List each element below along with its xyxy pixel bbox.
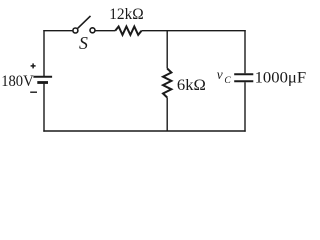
svg-text:12kΩ: 12kΩ (109, 6, 144, 23)
svg-text:180V: 180V (1, 73, 34, 90)
resistor 12kOhm (115, 27, 141, 35)
svg-text:C: C (224, 75, 231, 86)
capacitor 1000uF (234, 74, 253, 81)
svg-text:v: v (217, 67, 223, 82)
battery minus sign (30, 91, 37, 93)
switch left terminal circle (73, 28, 78, 33)
resistor 6kOhm (163, 69, 171, 98)
switch blade (78, 16, 91, 28)
battery 180V (33, 77, 52, 83)
svg-text:6kΩ: 6kΩ (177, 77, 206, 94)
wire bottom (43, 130, 245, 132)
wire right vertical upper (244, 30, 246, 73)
capacitor top plate (234, 73, 253, 75)
wire left vertical lower (43, 84, 45, 132)
wire middle branch lower (166, 98, 168, 132)
wire switch to 12k resistor (95, 30, 115, 32)
wire right vertical lower (244, 82, 246, 132)
battery short plate (37, 81, 48, 84)
wire left vertical upper (43, 30, 45, 76)
battery plus sign (31, 63, 36, 68)
switch S (73, 16, 95, 33)
capacitor bottom plate (234, 80, 253, 82)
battery long plate (33, 76, 52, 78)
svg-text:S: S (79, 33, 88, 53)
svg-text:1000μF: 1000μF (255, 70, 307, 87)
switch right terminal circle (90, 28, 95, 33)
wire middle branch upper (166, 31, 168, 69)
wire 12k resistor to top-right corner (142, 30, 246, 32)
wire top-left from corner to switch (43, 30, 72, 32)
